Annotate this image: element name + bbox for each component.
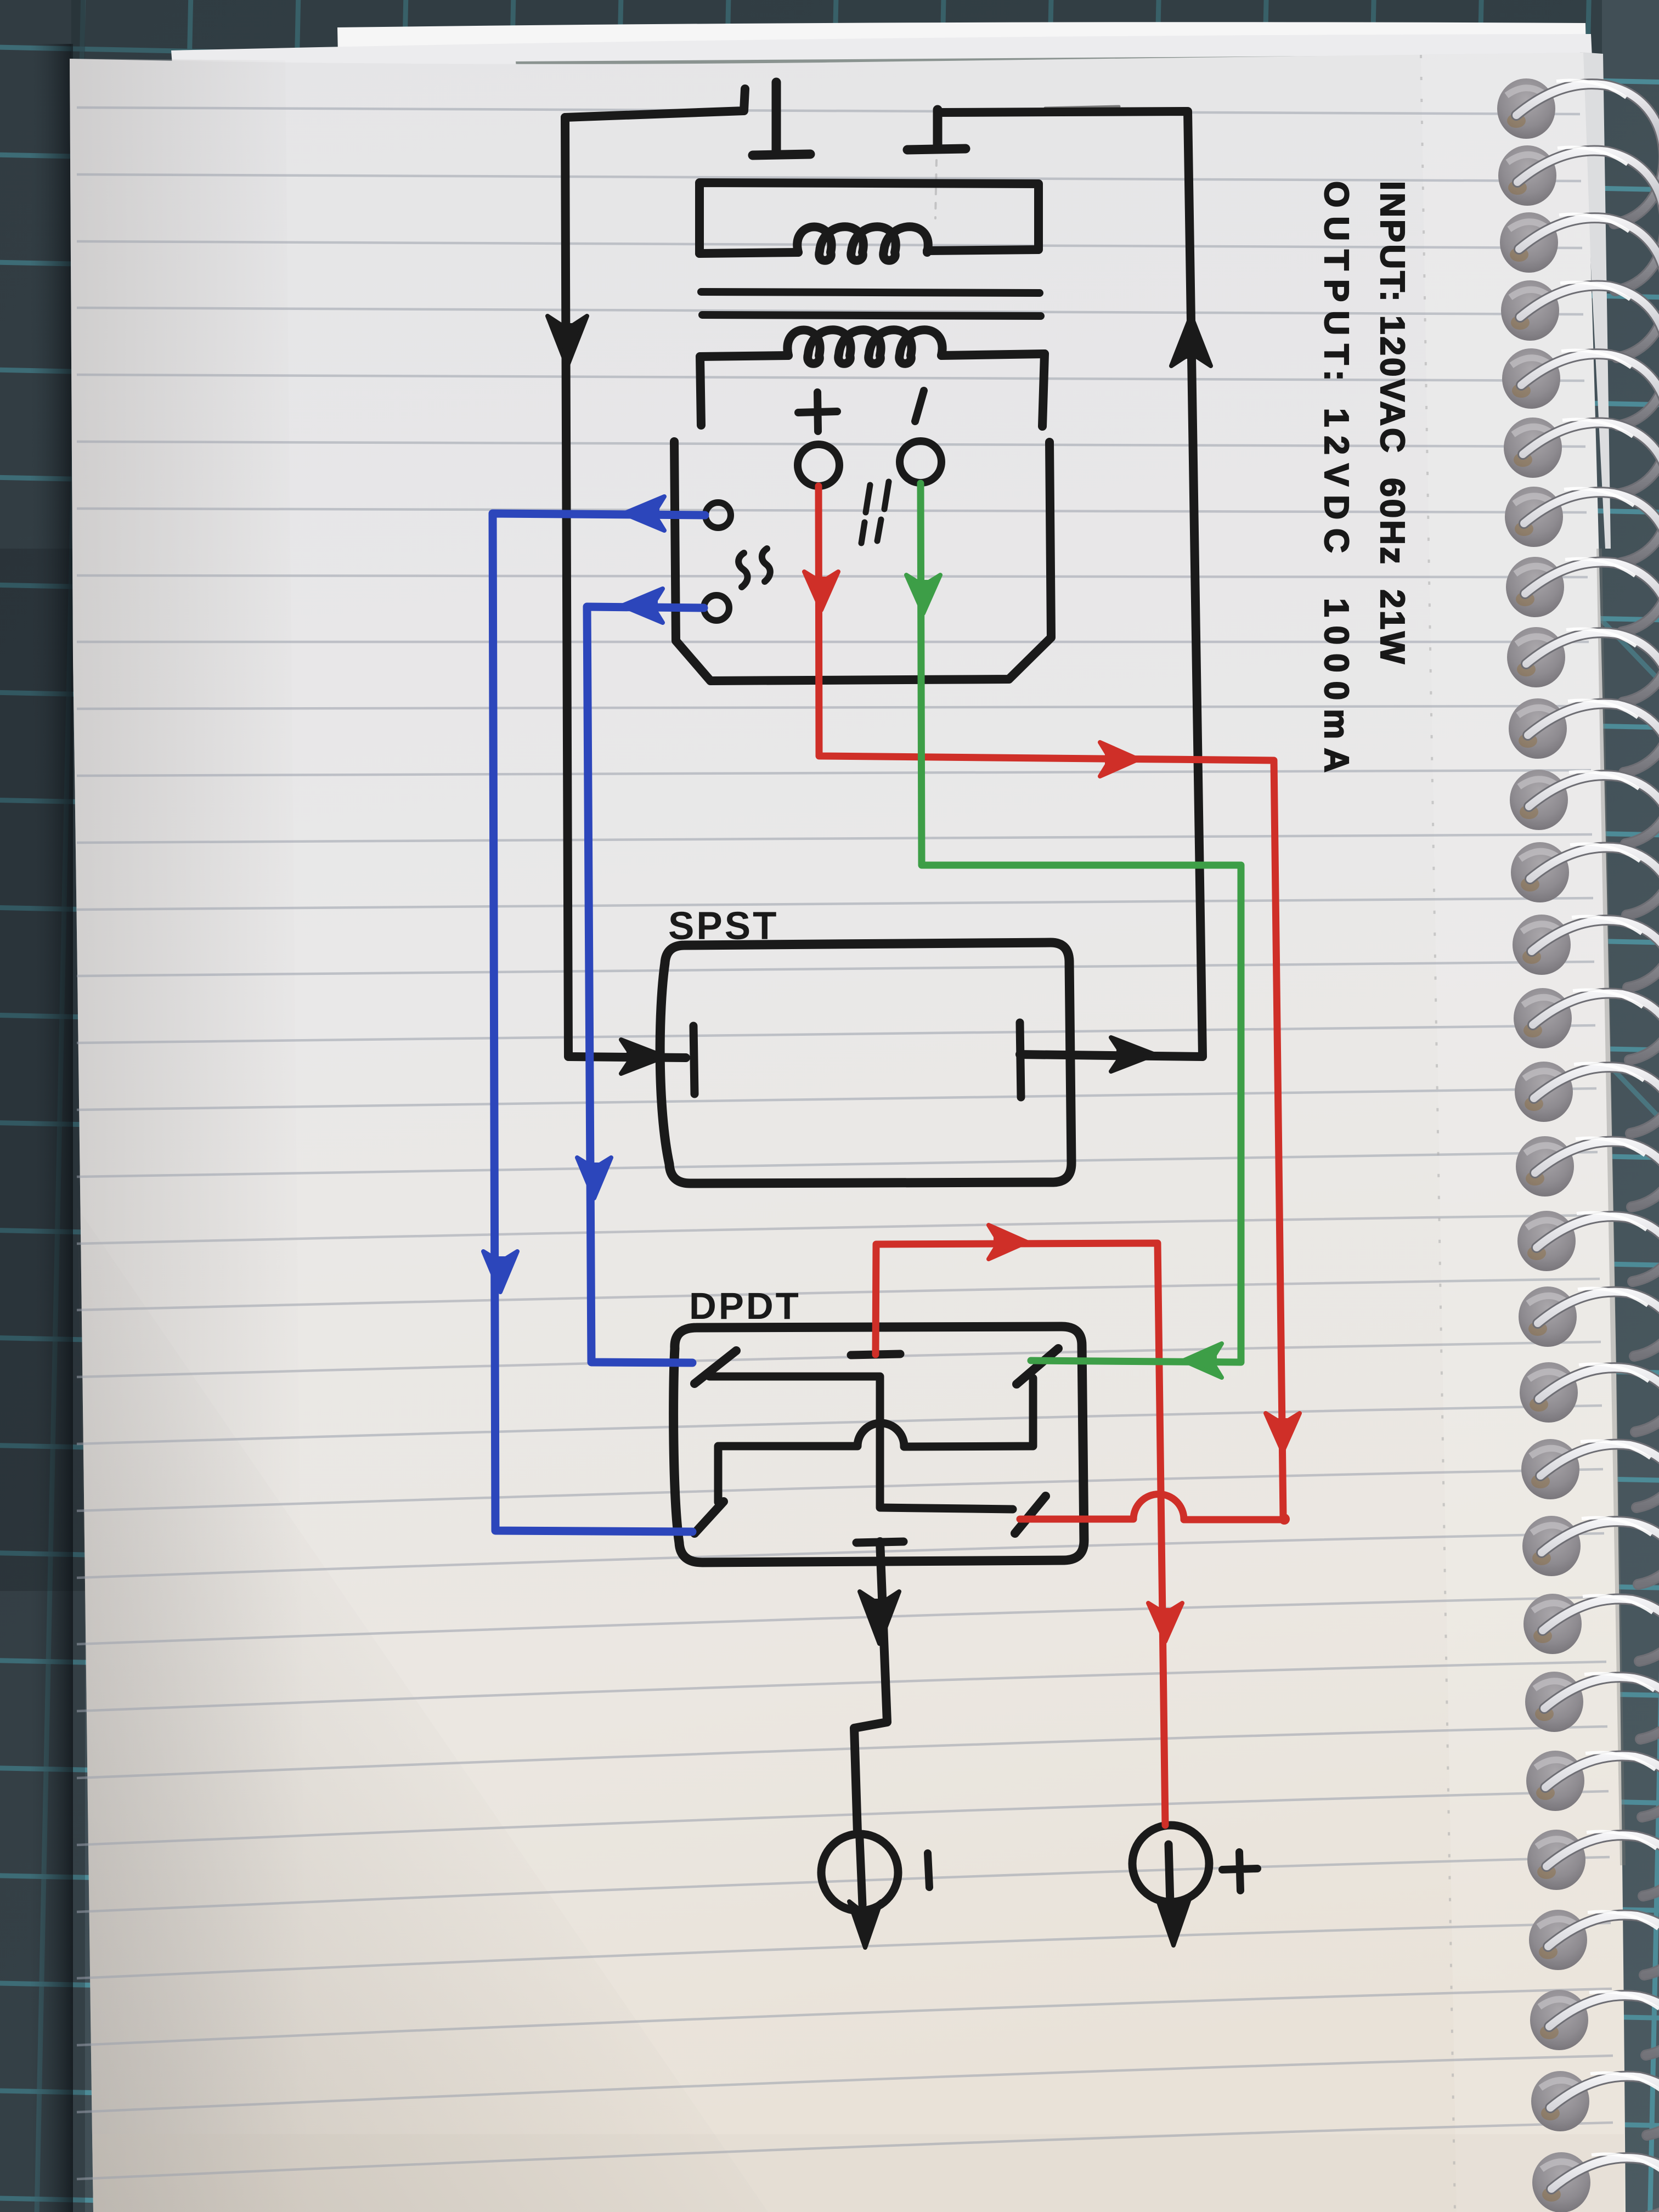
punched holes	[1497, 78, 1555, 139]
arrow up on right vertical	[1171, 315, 1211, 366]
PSU + terminal circle	[798, 444, 839, 486]
AC squiggle marks near - terminal	[861, 482, 889, 543]
black output wire from DPDT bottom to minus output	[854, 1542, 887, 1833]
DPDT inner cross link with hop	[718, 1378, 1033, 1502]
secondary right lead down	[1042, 354, 1045, 426]
transformer T1 primary winding	[797, 227, 928, 261]
blue wire: upper switch contact to DPDT bottom-left	[493, 513, 705, 1532]
wire: top-left horizontal to plug blade 1	[565, 89, 745, 117]
DPDT throw contact bottom-right	[1015, 1496, 1046, 1533]
blue wire: lower switch contact to DPDT top-left	[587, 607, 704, 1363]
green wire: PSU - to DPDT top-right	[921, 483, 1241, 1362]
DPDT throw contact bottom-left	[695, 1502, 724, 1533]
transformer T1 primary frame	[699, 183, 1039, 253]
DPDT bottom common bar	[856, 1542, 904, 1543]
secondary left lead down	[700, 357, 701, 425]
PSU - terminal circle	[900, 441, 941, 483]
arrow out of SPST right terminal (right)	[1111, 1037, 1155, 1071]
wire: top-right horizontal + right vertical down to SPST right	[939, 111, 1203, 1057]
DPDT switch box S2	[674, 1327, 1084, 1562]
transformer core lines	[701, 292, 1040, 293]
wire: left main black wire from plug down to SPST	[565, 117, 686, 1058]
spiral binding coils	[1516, 84, 1659, 224]
DPDT throw contact top-left	[695, 1351, 736, 1384]
output terminal plus: circle with arrow	[1132, 1825, 1209, 1902]
DPDT throw contact top-right	[1017, 1348, 1058, 1384]
SPST switch box S1	[660, 943, 1071, 1183]
DPDT top common bar	[851, 1354, 900, 1355]
paper drop shadow on mat	[0, 0, 85, 2212]
label minus at output	[928, 1853, 929, 1887]
perforation line	[1421, 55, 1455, 2212]
output terminal minus: circle with arrow	[821, 1834, 898, 1911]
AC squiggle marks near switch	[738, 553, 747, 587]
red wire: DPDT bottom-right to junction with hop	[1020, 1494, 1285, 1520]
red wire: DPDT top common up and over to + output	[876, 1243, 1165, 1825]
svg-text:DPDT: DPDT	[689, 1285, 801, 1327]
switch contact circle lower	[704, 595, 729, 620]
faint guide dashes under blade 2	[935, 160, 936, 218]
red junction dot	[1279, 1514, 1290, 1525]
underlying notebook sheets	[337, 22, 1586, 55]
spec text rotated	[1308, 181, 1420, 781]
red wire: PSU + to junction via SPST bypass	[819, 486, 1283, 1517]
arrow on left wire (down)	[548, 316, 587, 366]
label plus at output	[1222, 1852, 1257, 1891]
plug blade 2	[933, 110, 943, 149]
SPST left terminal bar	[693, 1026, 695, 1094]
label - (tick)	[915, 391, 924, 421]
SPST right terminal bar	[1020, 1023, 1021, 1097]
power supply module box U1	[674, 442, 1051, 681]
transformer T1 secondary winding	[787, 330, 942, 364]
svg-text:SPST: SPST	[668, 905, 778, 948]
plug blade 1	[772, 82, 781, 155]
switch contact circle upper	[706, 503, 731, 528]
DPDT inner link pole1	[709, 1376, 1013, 1509]
arrow into SPST left terminal (right)	[621, 1040, 665, 1074]
label +	[798, 392, 837, 431]
